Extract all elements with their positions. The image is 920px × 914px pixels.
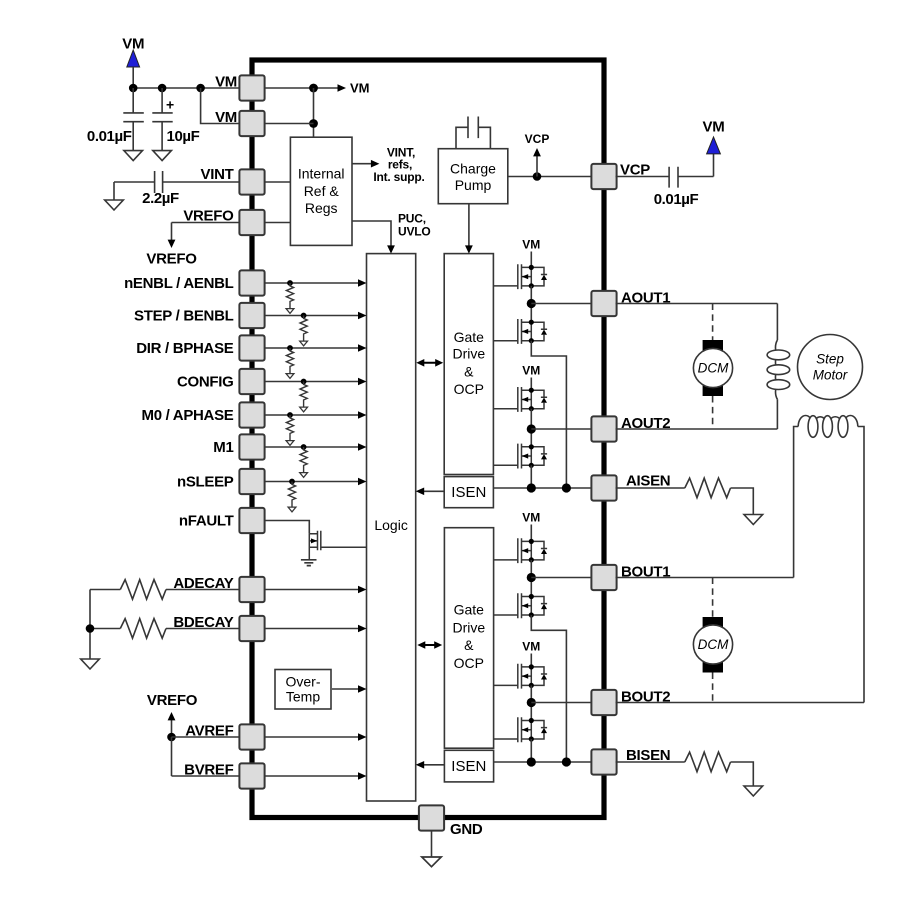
- motor Step Motor: [798, 335, 863, 400]
- double arrow Logic to Gate Drive B: [417, 641, 442, 649]
- wire R3 to ground: [731, 488, 754, 515]
- node VCP junction: [533, 172, 542, 181]
- arrow Charge Pump to Gate Drive A: [468, 204, 470, 246]
- resistor R4 BISEN sense: [685, 752, 731, 772]
- arrow VCP up: [533, 148, 541, 156]
- wire ADECAY resistor to pin: [90, 590, 240, 629]
- node BOUT2: [527, 698, 536, 707]
- pin BOUT2: [591, 690, 616, 715]
- svg-text:0.01µF: 0.01µF: [654, 191, 699, 208]
- wire Charge Pump to VCP pin: [508, 176, 591, 178]
- arrow internal VM: [338, 84, 347, 92]
- wire VREFO out left with down arrow: [172, 223, 240, 241]
- svg-text:AISEN: AISEN: [626, 473, 670, 490]
- capacitor C5 0.01uF on VCP: [616, 167, 714, 188]
- node VM rail junction 1: [129, 84, 138, 93]
- svg-text:&: &: [464, 637, 474, 653]
- ground below R4: [744, 786, 763, 796]
- svg-text:Step: Step: [816, 352, 844, 367]
- svg-text:GND: GND: [450, 821, 483, 838]
- svg-text:DCM: DCM: [698, 637, 729, 652]
- svg-text:VCP: VCP: [525, 132, 550, 146]
- block: Logic: [367, 254, 416, 801]
- capacitor C3 2.2uF on VINT: [114, 171, 240, 193]
- svg-text:Gate: Gate: [454, 602, 485, 618]
- ground below C1: [124, 151, 143, 161]
- node AOUT2: [527, 424, 536, 433]
- svg-text:Ref &: Ref &: [304, 183, 340, 199]
- transistor Q7 low-side B1: [493, 593, 547, 618]
- wire AOUT1 node to pin: [531, 303, 590, 305]
- svg-text:Logic: Logic: [374, 517, 407, 533]
- svg-text:Charge: Charge: [450, 160, 496, 176]
- block: Over-Temp: [275, 670, 331, 710]
- wire VM stub to Q6 drain: [530, 525, 532, 542]
- svg-text:Drive: Drive: [452, 346, 485, 362]
- wire VINT to Internal Ref block: [265, 181, 291, 183]
- pin AOUT1: [591, 291, 616, 316]
- svg-text:OCP: OCP: [454, 655, 484, 671]
- pin VINT: [239, 169, 264, 194]
- wire VCP junction up: [536, 156, 538, 177]
- pin VM 1: [239, 75, 264, 100]
- transistor Q3 low-side A1: [493, 319, 547, 344]
- IC package outline: [252, 60, 604, 818]
- capacitor C2 10uF polarized: [152, 88, 172, 151]
- wire junction3 down to VM2 row: [201, 88, 240, 124]
- wire VM pin2 right: [265, 123, 314, 125]
- svg-text:Over-: Over-: [286, 674, 321, 690]
- pin VCP: [591, 164, 616, 189]
- wire Q7 source to sense rail: [531, 615, 566, 762]
- node BISEN junction 1: [527, 757, 536, 766]
- svg-text:2.2µF: 2.2µF: [142, 190, 179, 207]
- pin AISEN: [591, 475, 616, 500]
- pin BISEN: [591, 749, 616, 774]
- node VM rail junction 2: [158, 84, 167, 93]
- wire Q8 source to BOUT2 node to Q9 drain: [530, 685, 532, 720]
- wire BISEN external: [616, 761, 685, 763]
- svg-text:Internal: Internal: [298, 166, 345, 182]
- svg-text:VINT: VINT: [201, 166, 234, 183]
- wire VM pin1 right to internal VM arrow: [265, 87, 339, 89]
- svg-text:nFAULT: nFAULT: [179, 513, 234, 530]
- svg-text:VREFO: VREFO: [146, 251, 197, 268]
- pin AOUT2: [591, 416, 616, 441]
- ground signal bars below Q1: [301, 560, 317, 566]
- node VM2 internal junction: [309, 119, 318, 128]
- VM supply triangle right (blue): [707, 137, 721, 154]
- wire Q6 source to BOUT1 node to Q7 drain: [530, 560, 532, 597]
- node AISEN junction 2: [562, 483, 571, 492]
- node BOUT1: [527, 573, 536, 582]
- wire Q2 source to AOUT1 node to Q3 drain: [530, 286, 532, 322]
- svg-text:VM: VM: [215, 109, 237, 126]
- wire VINT left down to ground: [113, 182, 115, 200]
- svg-text:0.01µF: 0.01µF: [87, 128, 132, 145]
- node AISEN junction 1: [527, 483, 536, 492]
- svg-text:nENBL / AENBL: nENBL / AENBL: [124, 275, 234, 292]
- wire BDECAY into logic: [265, 628, 359, 630]
- transistor Q8 high-side B2: [493, 664, 547, 689]
- wire Q9 source down to BISEN rail: [530, 739, 532, 762]
- node BISEN junction 2: [562, 757, 571, 766]
- wire Q5 source down to AISEN rail: [530, 465, 532, 488]
- svg-text:Drive: Drive: [452, 619, 485, 635]
- svg-text:Int. supp.: Int. supp.: [373, 170, 424, 184]
- wire GND pin down: [431, 831, 433, 857]
- block: Charge Pump: [438, 149, 508, 204]
- svg-text:VM: VM: [522, 238, 540, 252]
- motor DCM A: [693, 304, 732, 430]
- svg-text:Gate: Gate: [454, 329, 485, 345]
- transistor Q2 high-side A1: [493, 264, 547, 289]
- svg-text:Pump: Pump: [455, 177, 492, 193]
- svg-text:VM: VM: [522, 511, 540, 525]
- motor DCM B: [693, 578, 732, 703]
- ground below decay resistors: [81, 659, 100, 669]
- transistor Q9 low-side B2: [493, 717, 547, 742]
- svg-text:+: +: [166, 97, 174, 113]
- wire AOUT2 external: [616, 428, 778, 430]
- wire VREFO to Internal Ref block: [265, 222, 291, 224]
- wire VM internal down to Internal Ref block: [313, 88, 315, 137]
- svg-text:VM: VM: [522, 640, 540, 654]
- node VM rail junction 3: [196, 84, 205, 93]
- ground below R3: [744, 515, 763, 525]
- svg-text:ISEN: ISEN: [451, 758, 486, 775]
- transistor Q5 low-side A2: [493, 444, 547, 469]
- node AOUT1: [527, 299, 536, 308]
- svg-text:10µF: 10µF: [167, 128, 200, 145]
- pin GND: [419, 805, 444, 830]
- svg-text:nSLEEP: nSLEEP: [177, 474, 234, 491]
- ground below C3: [105, 200, 124, 210]
- arrow VREFO down: [168, 240, 176, 248]
- wire R4 to ground: [731, 762, 754, 786]
- ground below C2: [153, 151, 172, 161]
- wire VM triangle to rail: [132, 67, 134, 88]
- wire BOUT1 node to pin: [531, 577, 590, 579]
- wire BOUT2 node to pin: [531, 702, 590, 704]
- wire nFAULT to open-drain FET: [265, 521, 310, 534]
- wire AVREF junction down to BVREF: [171, 737, 173, 776]
- svg-text:STEP / BENBL: STEP / BENBL: [134, 308, 234, 325]
- capacitor C4 charge pump flying cap: [456, 117, 490, 149]
- wire VM stub to Q8 drain: [530, 654, 532, 667]
- wire VM stub to Q4 drain: [530, 378, 532, 391]
- wire AISEN rail: [493, 487, 590, 489]
- block: Gate Drive & OCP A: [444, 254, 493, 475]
- svg-text:M0 / APHASE: M0 / APHASE: [142, 407, 234, 424]
- arrow Over-Temp to Logic: [332, 688, 359, 690]
- capacitor C1 0.01uF: [123, 88, 144, 151]
- svg-text:VM: VM: [522, 364, 540, 378]
- wire VM stub to Q2 drain: [530, 252, 532, 268]
- svg-text:OCP: OCP: [454, 381, 484, 397]
- svg-text:M1: M1: [213, 439, 233, 456]
- node VM internal junction: [309, 84, 318, 93]
- wire BOUT2 external: [616, 431, 865, 703]
- wire ADECAY into logic: [265, 589, 359, 591]
- wire BOUT1 external: [616, 431, 794, 578]
- svg-text:Regs: Regs: [305, 200, 338, 216]
- transistor Q4 high-side A2: [493, 387, 547, 412]
- svg-text:ISEN: ISEN: [451, 484, 486, 501]
- wire BDECAY resistor to pin: [90, 629, 240, 660]
- transistor Q6 high-side B1: [493, 538, 547, 563]
- wire C5 up to VM: [713, 154, 715, 177]
- wire AOUT1 external: [616, 303, 778, 305]
- block: ISEN B: [444, 750, 493, 782]
- inductor L1 winding A: [767, 304, 790, 430]
- transistor Q1 nFAULT open-drain (mirrored): [309, 531, 366, 560]
- svg-text:DCM: DCM: [698, 361, 729, 376]
- svg-text:UVLO: UVLO: [398, 225, 431, 239]
- block: Internal Ref & Regs U-ref: [290, 137, 352, 245]
- svg-text:DIR / BPHASE: DIR / BPHASE: [136, 340, 234, 357]
- svg-text:CONFIG: CONFIG: [177, 374, 234, 391]
- resistor R3 AISEN sense: [685, 478, 731, 498]
- wire VM rail: [133, 87, 239, 89]
- wire Q3 source to sense rail: [531, 341, 566, 488]
- wire BISEN rail: [494, 761, 591, 763]
- block: ISEN A: [444, 477, 493, 508]
- arrow VREFO up from AVREF junction: [171, 720, 173, 738]
- pin BOUT1: [591, 565, 616, 590]
- pin VREFO: [239, 210, 264, 235]
- wire Q4 source to AOUT2 node to Q5 drain: [530, 409, 532, 447]
- ground below GND pin: [422, 857, 441, 867]
- arrow ISEN B to Logic: [424, 764, 445, 766]
- arrow VINT refs Int supp: [352, 163, 372, 165]
- arrow ISEN A to Logic: [424, 490, 445, 492]
- arrow PUC UVLO into Logic: [387, 245, 395, 253]
- svg-text:VM: VM: [215, 74, 237, 91]
- svg-text:VREFO: VREFO: [147, 692, 198, 709]
- double arrow Logic to Gate Drive A: [416, 359, 443, 367]
- wire AISEN external: [616, 487, 685, 489]
- wire PUC UVLO from Internal Ref to Logic: [352, 221, 391, 246]
- svg-text:Temp: Temp: [286, 689, 320, 705]
- inductor L2 winding B: [794, 416, 864, 438]
- svg-text:&: &: [464, 363, 474, 379]
- svg-text:PUC,: PUC,: [398, 212, 426, 226]
- svg-text:VM: VM: [350, 81, 370, 96]
- node AVREF junction: [167, 733, 176, 742]
- svg-text:VM: VM: [703, 119, 725, 136]
- svg-text:Motor: Motor: [813, 368, 848, 383]
- pin VM 2: [239, 111, 264, 136]
- block: Gate Drive & OCP B: [444, 528, 493, 749]
- VM supply triangle (blue): [127, 50, 140, 67]
- node decay junction: [86, 624, 95, 633]
- wire AOUT2 node to pin: [531, 428, 590, 430]
